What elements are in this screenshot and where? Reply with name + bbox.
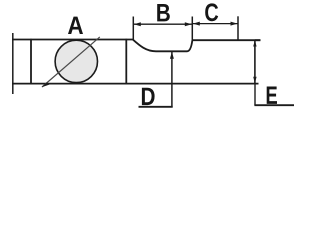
C arrow left [193,22,200,26]
B/C middle extension tick [191,17,193,42]
D leader arrow [170,52,174,59]
E arrow up [253,40,256,46]
diagonal slash through circle [42,37,100,87]
label D [142,88,155,105]
C dimension line [192,23,238,25]
E arrow down [253,77,256,83]
C right extension tick [237,16,239,40]
label C [205,3,218,21]
part right edge / E dimension line [254,40,256,85]
groove profile [133,40,192,52]
diagonal arrowhead [42,82,50,87]
C arrow right [231,22,238,26]
B left extension tick [132,17,134,40]
B arrow left [134,22,141,26]
D leader line [171,52,173,107]
bottom edge [12,83,259,85]
E underline [254,104,294,106]
top edge (left section) [12,39,133,41]
label E [267,87,277,104]
label B [157,4,170,21]
D underline [139,106,173,108]
label A [68,17,83,34]
part left edge [30,39,32,85]
E top tick [255,39,261,41]
B dimension line [133,23,192,25]
E leader line [254,84,256,106]
internal section line [125,39,127,85]
B arrow right [185,22,192,26]
top edge (right section) [192,39,260,41]
hole circle A [55,40,97,82]
left break/extension line [12,33,14,94]
